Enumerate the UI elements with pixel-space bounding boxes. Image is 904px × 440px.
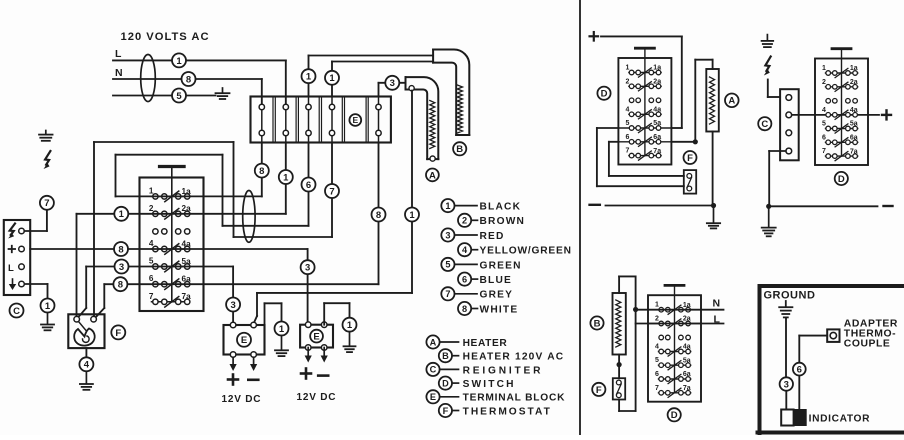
legend component A HEATER <box>426 335 507 349</box>
svg-text:7a: 7a <box>850 148 858 155</box>
wire label 1 E1dc <box>275 322 289 336</box>
legend component E TERMINAL BLOCK <box>426 390 565 404</box>
wire minus line sub2 <box>766 204 877 209</box>
wire C2 t2 to plus <box>792 114 879 116</box>
svg-text:4a: 4a <box>653 107 661 114</box>
switch D3 body <box>815 49 868 165</box>
switch D3 row 7 contacts <box>822 148 858 161</box>
svg-text:2a: 2a <box>653 79 661 86</box>
svg-text:3: 3 <box>784 379 789 390</box>
switch D2 row 2 contacts <box>625 78 661 91</box>
wire row6 net <box>96 284 204 317</box>
svg-text:1a: 1a <box>850 65 858 72</box>
wire label 4 <box>79 357 93 371</box>
svg-text:12V DC: 12V DC <box>297 392 337 403</box>
wire row2 to L <box>636 323 724 325</box>
ground panel border <box>758 286 904 435</box>
wire spark to C2 <box>768 80 780 98</box>
switch D1 row 2 contacts <box>149 204 191 219</box>
legend wire 2 BROWN <box>458 214 525 228</box>
svg-text:6a: 6a <box>182 275 192 284</box>
svg-text:F: F <box>687 153 693 164</box>
ground top left <box>39 131 53 141</box>
svg-text:3: 3 <box>445 230 450 240</box>
svg-text:5a: 5a <box>182 257 192 266</box>
svg-text:8: 8 <box>118 280 123 291</box>
terminal block E main contacts <box>259 97 381 143</box>
svg-text:1: 1 <box>625 65 629 72</box>
svg-text:E: E <box>430 392 436 402</box>
wire label 1 above E cell3 <box>302 69 316 83</box>
thermostat F1 label <box>111 325 125 339</box>
wire label 1 on L <box>172 53 186 67</box>
switch D2 row 1 contacts <box>625 65 661 78</box>
switch D3 row 6 contacts <box>822 134 858 147</box>
wire label 8 row6 <box>113 277 127 291</box>
svg-text:1: 1 <box>283 172 289 183</box>
ground symbol panel <box>779 301 792 317</box>
legend wire 8 WHITE <box>458 302 518 316</box>
svg-text:B: B <box>456 144 463 155</box>
svg-text:3: 3 <box>390 78 395 89</box>
svg-text:2: 2 <box>462 216 467 226</box>
wire label 1 above E cell4 <box>325 71 339 85</box>
switch D3 row blank contacts <box>826 99 857 104</box>
ground below F1 <box>80 372 93 390</box>
wire label 6 panel <box>793 363 806 376</box>
wire minus line sub1 <box>606 203 717 208</box>
switch D1 row blank contacts <box>153 229 190 234</box>
svg-text:A: A <box>728 96 735 107</box>
svg-text:6a: 6a <box>653 134 661 141</box>
svg-text:2: 2 <box>822 79 826 86</box>
label E2dc plus <box>301 369 311 379</box>
svg-text:7a: 7a <box>182 292 192 301</box>
wire label 3 row5 <box>115 260 129 274</box>
svg-text:RED: RED <box>480 231 505 242</box>
label INDICATOR <box>809 414 871 425</box>
legend component B HEATER 120V AC <box>439 349 565 363</box>
wire label 6 below E cell3 <box>302 178 316 192</box>
switch D1 row 4 contacts <box>149 239 191 254</box>
wire N line <box>113 79 262 107</box>
svg-text:C: C <box>13 306 20 317</box>
wire row1 net <box>116 195 262 197</box>
label L sub3 <box>714 314 721 326</box>
wire label 3 panel <box>780 377 793 390</box>
switch D4 row blank contacts <box>659 335 690 340</box>
svg-text:5: 5 <box>655 357 659 364</box>
wire E2dc minus arrow <box>321 348 328 363</box>
wire 6 cell3 path <box>116 143 309 226</box>
wire 1 cell3 to heater B <box>309 56 434 97</box>
wire 7 cell4 path <box>94 142 332 317</box>
svg-text:2: 2 <box>625 78 629 85</box>
svg-text:D: D <box>442 378 449 388</box>
svg-text:A: A <box>430 337 437 347</box>
switch D2 row 6 contacts <box>618 134 671 147</box>
svg-text:B: B <box>594 318 601 329</box>
wire label 5 <box>172 89 186 103</box>
adapter thermocouple body <box>827 329 839 342</box>
switch D4 row 5 contacts <box>655 357 691 370</box>
label minus sub2 <box>884 205 893 207</box>
svg-text:E: E <box>313 332 319 343</box>
label N <box>115 67 123 79</box>
thermostat F2 label <box>684 151 697 164</box>
heater A2 label <box>725 94 739 108</box>
svg-text:4: 4 <box>822 107 826 114</box>
svg-text:1a: 1a <box>683 302 691 309</box>
svg-text:3: 3 <box>119 262 124 273</box>
switch D2 row 4 contacts <box>625 106 661 119</box>
switch D1 body <box>140 167 204 312</box>
label E1dc minus <box>248 378 258 381</box>
svg-text:F: F <box>443 406 449 416</box>
svg-text:7: 7 <box>44 198 49 209</box>
svg-text:HEATER: HEATER <box>463 338 508 349</box>
wire 8 cell6 to row6a <box>204 143 379 285</box>
svg-text:5a: 5a <box>850 121 858 128</box>
wire C2 t4 to ground <box>769 151 786 206</box>
reigniter C1 label <box>10 304 24 318</box>
svg-text:1: 1 <box>119 209 125 220</box>
svg-text:6: 6 <box>306 180 311 191</box>
label E2dc minus <box>318 374 328 377</box>
wire E1dc plus arrow <box>230 357 237 371</box>
label ADAPTER <box>844 318 898 329</box>
svg-text:A: A <box>429 170 436 181</box>
wire label 7 below E cell4 <box>325 184 339 198</box>
svg-text:N: N <box>713 298 721 310</box>
svg-text:2a: 2a <box>182 204 192 213</box>
svg-text:TERMINAL BLOCK: TERMINAL BLOCK <box>463 393 566 404</box>
wire C1 t4 to ground <box>25 284 48 298</box>
switch D4 label <box>668 408 681 421</box>
svg-text:C: C <box>430 365 437 375</box>
wire D2 row6a to heater A2 <box>671 60 712 145</box>
label N sub3 <box>713 298 721 310</box>
label plus sub2 <box>882 110 891 119</box>
switch D1 row 5 contacts <box>149 257 191 272</box>
ground E1dc <box>275 336 288 357</box>
svg-text:HEATER 120V AC: HEATER 120V AC <box>463 352 565 363</box>
ground AC <box>216 88 230 99</box>
svg-text:7: 7 <box>149 292 154 301</box>
wire label 8 row4 <box>114 242 128 256</box>
heater A element <box>406 77 439 161</box>
heater B label <box>453 142 466 155</box>
label GROUND <box>764 290 816 302</box>
svg-text:1: 1 <box>822 65 826 72</box>
switch D3 row 4 contacts <box>815 107 868 120</box>
svg-text:7: 7 <box>655 385 659 392</box>
svg-text:6a: 6a <box>850 135 858 142</box>
switch D4 row 6 contacts <box>655 371 691 384</box>
wire label 1 below E cell2 <box>279 170 293 184</box>
wire D2 row5 to F2 <box>597 128 684 186</box>
section divider line <box>579 0 581 435</box>
legend wire 7 GREY <box>441 287 513 301</box>
svg-text:5: 5 <box>149 257 154 266</box>
svg-text:6: 6 <box>655 371 659 378</box>
switch D3 label <box>835 172 848 185</box>
wire label 1 E2dc <box>343 318 357 332</box>
wire label 8 below E cell6 <box>372 208 386 222</box>
svg-text:7: 7 <box>445 289 450 299</box>
svg-text:1: 1 <box>347 320 353 331</box>
label THERMO- <box>844 329 896 340</box>
ground sub1 <box>707 206 720 229</box>
svg-text:BLUE: BLUE <box>480 275 513 286</box>
reigniter C2 body <box>780 89 799 160</box>
svg-text:GREY: GREY <box>480 290 514 301</box>
spark gap symbol <box>44 151 51 169</box>
svg-text:4: 4 <box>84 360 90 371</box>
legend component F THERMOSTAT <box>439 404 552 418</box>
svg-text:5a: 5a <box>653 120 661 127</box>
wire plus to row5a <box>601 36 682 128</box>
thermostat F1 body <box>68 314 104 348</box>
wire row4 net <box>30 249 307 325</box>
terminal block E main body <box>251 97 391 143</box>
switch D3 row 2 contacts <box>822 79 858 92</box>
label minus sub1 <box>590 204 600 206</box>
label E1dc plus <box>228 375 238 385</box>
svg-text:SWITCH: SWITCH <box>463 379 516 390</box>
ground sub2 <box>762 206 776 236</box>
svg-text:5a: 5a <box>683 357 691 364</box>
svg-text:4a: 4a <box>850 107 858 114</box>
svg-text:8: 8 <box>376 210 381 221</box>
wire label 7 <box>40 196 54 210</box>
ground E2dc <box>344 332 356 352</box>
reigniter C1 body <box>4 220 30 295</box>
wire label 1 row2 <box>114 207 128 221</box>
svg-text:1: 1 <box>445 201 450 211</box>
svg-text:4: 4 <box>149 239 154 248</box>
switch D4 body <box>648 285 701 401</box>
svg-text:4a: 4a <box>182 239 192 248</box>
svg-text:1: 1 <box>655 302 659 309</box>
legend wire 1 BLACK <box>441 199 521 213</box>
svg-text:7: 7 <box>625 148 629 155</box>
wire label 8 below E cell1 <box>255 164 269 178</box>
svg-text:6: 6 <box>462 274 467 284</box>
label L <box>115 48 122 60</box>
thermostat F3 label <box>592 383 605 396</box>
wire B2 top to row1 <box>619 276 638 411</box>
legend component C REIGNITER <box>426 363 543 377</box>
terminal block E main label <box>349 114 361 126</box>
svg-text:YELLOW/GREEN: YELLOW/GREEN <box>480 246 572 257</box>
wire E1dc minus arrow <box>250 357 257 371</box>
svg-text:COUPLE: COUPLE <box>844 339 891 350</box>
wire 3 cell6 to heater A <box>379 83 406 97</box>
wire 1 cell2 to row2a <box>285 143 287 214</box>
svg-text:4: 4 <box>625 106 629 113</box>
switch D4 row 4 contacts <box>655 344 691 357</box>
svg-text:1a: 1a <box>653 65 661 72</box>
svg-text:4: 4 <box>462 245 468 255</box>
svg-text:2: 2 <box>655 316 659 323</box>
thermostat F2 body <box>684 170 696 194</box>
wire L line <box>113 60 286 107</box>
svg-text:1a: 1a <box>182 187 192 196</box>
svg-text:1: 1 <box>149 186 154 195</box>
wire E2dc stub to ground <box>324 303 349 325</box>
wire label 3 to block E1dc <box>226 298 240 312</box>
svg-text:2a: 2a <box>850 79 858 86</box>
cable ellipse AC <box>141 55 156 102</box>
switch D1 row 6 contacts <box>149 274 191 289</box>
heater A label <box>426 169 439 182</box>
svg-text:GREEN: GREEN <box>480 260 522 271</box>
svg-text:6: 6 <box>625 134 629 141</box>
svg-text:BROWN: BROWN <box>480 216 526 227</box>
label E1dc 12V DC <box>222 394 262 405</box>
svg-text:INDICATOR: INDICATOR <box>809 414 871 425</box>
svg-text:1: 1 <box>279 324 285 335</box>
svg-text:1: 1 <box>329 73 335 84</box>
switch D3 row 1 contacts <box>822 65 858 78</box>
ground below C1 <box>41 313 54 330</box>
svg-text:8: 8 <box>118 244 123 255</box>
wire 1 cell4 to heater B <box>332 62 433 97</box>
svg-text:4a: 4a <box>683 344 691 351</box>
svg-text:120 VOLTS AC: 120 VOLTS AC <box>121 31 210 43</box>
svg-text:BLACK: BLACK <box>480 202 522 213</box>
svg-text:8: 8 <box>259 166 264 177</box>
svg-text:F: F <box>596 385 602 396</box>
svg-text:2: 2 <box>149 204 154 213</box>
svg-text:E: E <box>241 335 247 346</box>
switch D4 row 1 contacts <box>648 302 701 315</box>
legend wire 5 GREEN <box>441 258 521 272</box>
legend wire 6 BLUE <box>458 273 512 287</box>
svg-text:2a: 2a <box>683 316 691 323</box>
wire B2 to F3 <box>617 355 622 379</box>
switch D1 row 7 contacts <box>149 292 191 307</box>
wire ground line <box>113 95 216 97</box>
indicator body <box>781 410 806 426</box>
svg-text:GROUND: GROUND <box>764 290 816 302</box>
wire row2 net <box>77 214 286 317</box>
svg-text:4: 4 <box>655 344 659 351</box>
wire label 3 to block E2dc <box>301 260 315 274</box>
heater B2 element <box>613 293 626 355</box>
thermostat F3 body <box>613 378 625 399</box>
wire row5 net <box>78 267 233 326</box>
wire label 1 heater A <box>405 208 419 222</box>
svg-text:L: L <box>714 314 721 326</box>
wire label 1 below C1 <box>41 299 55 313</box>
heater A2 element <box>706 69 719 132</box>
label E2dc 12V DC <box>297 392 337 403</box>
wire adapter to indicator <box>799 336 827 410</box>
wire row1 to N <box>636 309 724 311</box>
svg-text:D: D <box>838 174 845 185</box>
svg-text:5: 5 <box>625 120 629 127</box>
switch D4 row 7 contacts <box>655 385 691 398</box>
wire label 8 on N <box>182 72 196 86</box>
switch D2 body <box>618 48 671 164</box>
switch D2 row blank contacts <box>629 98 661 103</box>
svg-text:5: 5 <box>445 260 450 270</box>
svg-text:F: F <box>115 328 121 339</box>
svg-text:5: 5 <box>176 91 182 102</box>
terminal block E1dc body <box>224 322 265 357</box>
wire bottom to F3 <box>619 400 636 412</box>
switch D2 label <box>597 87 610 100</box>
wire E2dc plus arrow <box>305 348 312 363</box>
wire E1dc corner to ground <box>265 303 282 325</box>
switch D3 row 5 contacts <box>822 121 858 134</box>
wire A2 to minus line <box>712 132 714 206</box>
switch D2 row 5 contacts <box>618 120 671 133</box>
wire D2 row6 to F2 <box>609 142 684 176</box>
wire C1 t1 to spark <box>24 196 47 231</box>
svg-text:E: E <box>352 115 358 125</box>
svg-text:C: C <box>761 119 768 130</box>
svg-text:D: D <box>601 89 608 100</box>
switch D1 row 1 contacts <box>149 186 191 201</box>
switch D4 row 2 contacts <box>648 316 701 329</box>
label plus sub1 <box>590 32 599 41</box>
svg-text:7: 7 <box>822 148 826 155</box>
label COUPLE <box>844 339 891 350</box>
legend component D SWITCH <box>439 377 516 391</box>
svg-text:3: 3 <box>230 300 235 311</box>
svg-text:5: 5 <box>822 121 826 128</box>
mid cable ellipse <box>243 191 255 243</box>
svg-text:1: 1 <box>45 301 51 312</box>
heater B element <box>433 50 469 136</box>
svg-text:N: N <box>115 67 123 79</box>
svg-text:7a: 7a <box>683 385 691 392</box>
svg-text:6a: 6a <box>683 371 691 378</box>
title 120 VOLTS AC <box>121 31 210 43</box>
wire 1 heater A down <box>254 91 412 324</box>
legend wire 3 RED <box>441 228 504 242</box>
legend wire 4 YELLOW/GREEN <box>458 243 572 257</box>
wire ground to indicator <box>785 319 787 410</box>
svg-text:B: B <box>442 351 449 361</box>
svg-text:L: L <box>115 48 122 60</box>
svg-text:12V DC: 12V DC <box>222 394 262 405</box>
svg-text:REIGNITER: REIGNITER <box>463 365 544 376</box>
svg-text:8: 8 <box>462 304 467 314</box>
svg-text:6: 6 <box>149 274 154 283</box>
wire F1 to ground <box>85 348 87 357</box>
svg-text:1: 1 <box>176 56 182 67</box>
wire 8 cell1 to row1a <box>261 143 263 197</box>
switch D2 row 7 contacts <box>625 148 661 161</box>
terminal block E2dc body <box>300 322 333 350</box>
heater B2 label <box>590 316 603 329</box>
spark gap symbol sub2 <box>764 57 771 76</box>
svg-text:3: 3 <box>305 263 310 274</box>
svg-text:1: 1 <box>306 72 312 83</box>
svg-text:WHITE: WHITE <box>480 304 519 315</box>
svg-text:1: 1 <box>409 210 415 221</box>
svg-text:7: 7 <box>329 186 334 197</box>
svg-text:8: 8 <box>186 74 191 85</box>
svg-text:L: L <box>8 263 14 274</box>
wire label 3 heater A <box>385 76 399 90</box>
svg-text:6: 6 <box>822 134 826 141</box>
svg-text:7a: 7a <box>653 148 661 155</box>
